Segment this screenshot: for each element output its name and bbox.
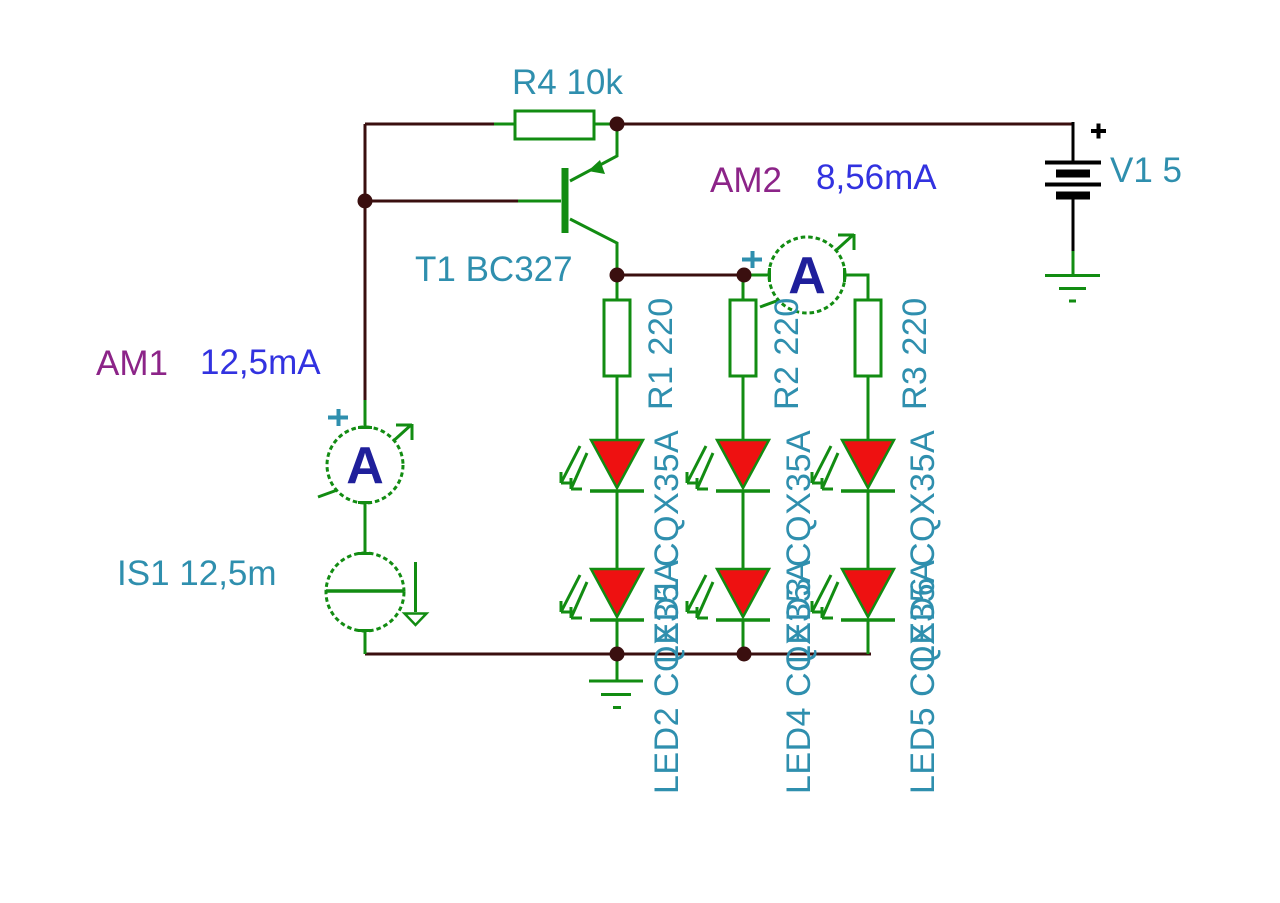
svg-text:R3 220: R3 220 (896, 297, 934, 410)
svg-text:IS1 12,5m: IS1 12,5m (117, 554, 277, 593)
svg-text:AM2: AM2 (710, 161, 782, 200)
svg-text:LED2 CQX35A: LED2 CQX35A (648, 560, 686, 794)
svg-text:A: A (788, 247, 826, 305)
svg-text:T1 BC327: T1 BC327 (415, 250, 573, 289)
svg-text:A: A (346, 437, 384, 495)
svg-text:LED5 CQX35A: LED5 CQX35A (904, 560, 942, 794)
svg-text:R4 10k: R4 10k (512, 63, 623, 102)
svg-text:V1 5: V1 5 (1110, 151, 1182, 190)
svg-text:LED4 CQX35A: LED4 CQX35A (780, 560, 818, 794)
svg-text:8,56mA: 8,56mA (816, 158, 937, 197)
svg-text:R2 220: R2 220 (768, 297, 806, 410)
svg-text:AM1: AM1 (96, 344, 168, 383)
svg-text:R1 220: R1 220 (642, 297, 680, 410)
svg-text:12,5mA: 12,5mA (200, 343, 321, 382)
